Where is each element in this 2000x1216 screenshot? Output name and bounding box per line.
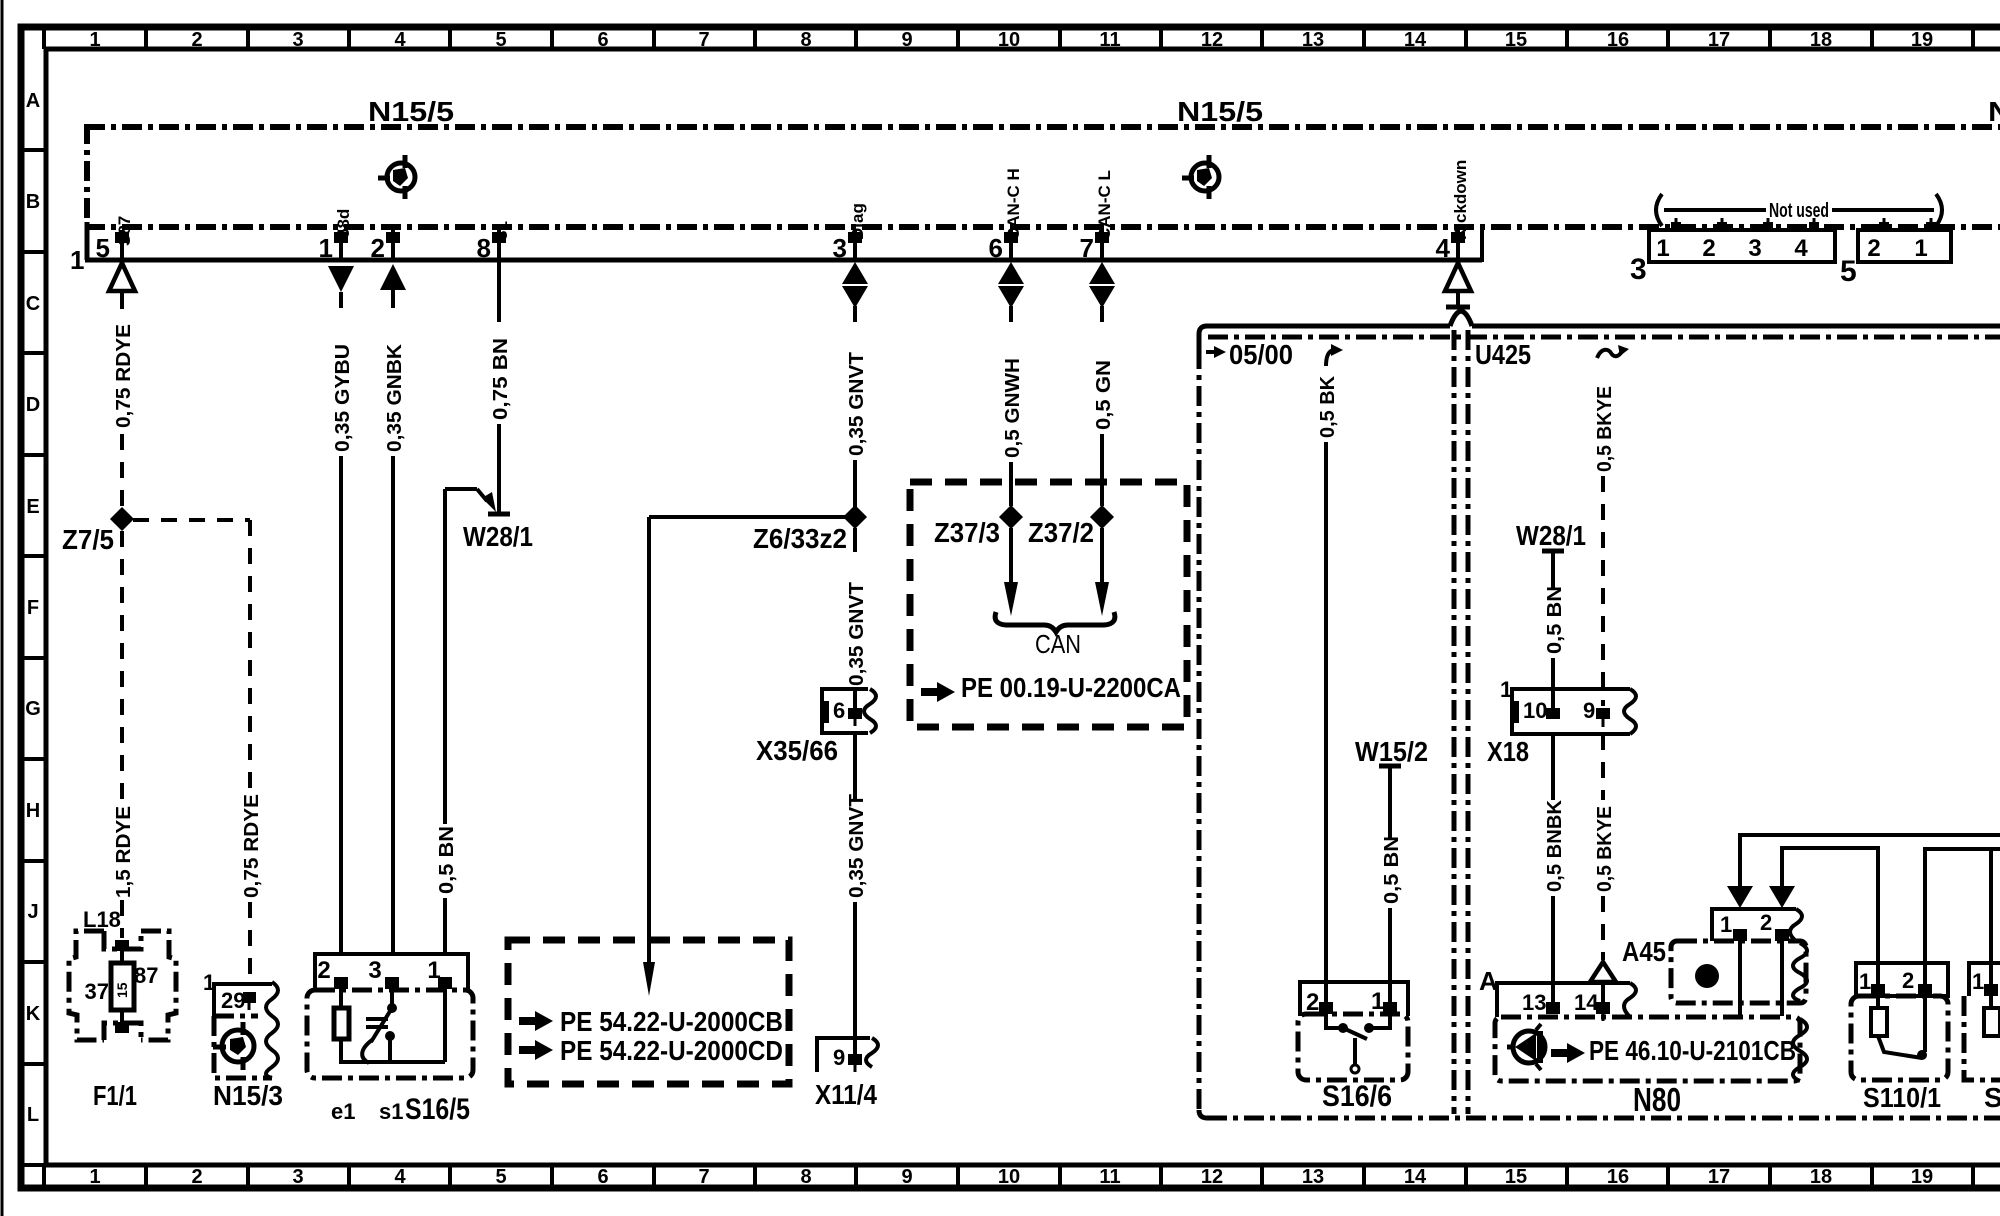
- S16/5 switch s1 pivot dot: [387, 1003, 397, 1013]
- S16/6 pin 1 pad: [1383, 1002, 1397, 1014]
- connector bus right end riser: [1480, 230, 1484, 262]
- X18 pin 9 pad: [1596, 708, 1610, 719]
- N80 connector torn right edge: [1624, 983, 1636, 1017]
- svg-text:6: 6: [833, 698, 845, 723]
- svg-text:PE 54.22-U-2000CB: PE 54.22-U-2000CB: [560, 1006, 783, 1037]
- svg-text:19: 19: [1911, 1166, 1933, 1188]
- wire X35/66 to X11/4: [853, 733, 857, 800]
- pin 3 pad: [848, 232, 862, 243]
- svg-text:Kickdown: Kickdown: [1451, 160, 1470, 240]
- pin 4 plug arrow (hollow): [1445, 263, 1471, 291]
- pin 4 wire stub to end bar: [1456, 291, 1460, 306]
- N15/5 control unit: [70, 96, 2000, 308]
- svg-text:W15/2: W15/2: [1355, 736, 1428, 767]
- X11/4 pin 9 pad: [848, 1054, 862, 1065]
- svg-text:0,5 BK: 0,5 BK: [1317, 375, 1339, 438]
- svg-text:F1/1: F1/1: [93, 1080, 137, 1111]
- S16/6 switch plunger: [1353, 1038, 1357, 1066]
- pin 7 pad: [1095, 232, 1109, 243]
- relay module N15/3 connector box: [214, 984, 272, 1016]
- svg-text:3: 3: [833, 233, 847, 263]
- clock spring A45 box (dash-dot): [1671, 941, 1806, 1003]
- svg-text:1: 1: [1914, 235, 1927, 262]
- S110/1 pin 2 pad: [1918, 984, 1932, 996]
- column numbers bottom: [89, 1166, 1933, 1188]
- svg-text:4: 4: [394, 1166, 406, 1188]
- svg-text:12: 12: [1201, 29, 1223, 51]
- N80 pin 14 pad: [1596, 1002, 1610, 1014]
- column ticks bottom: [44, 1165, 1973, 1188]
- N80 torn right edge: [1793, 1019, 1807, 1081]
- pin 8 stub: [497, 230, 501, 260]
- svg-text:17: 17: [1708, 29, 1730, 51]
- svg-text:W28/1: W28/1: [463, 521, 533, 552]
- PE note hand icon 2: [519, 1040, 553, 1060]
- svg-text:Z37/3: Z37/3: [934, 517, 1000, 548]
- diode arrow into pin 2: [1769, 886, 1795, 908]
- svg-text:0,5 BNBK: 0,5 BNBK: [1544, 799, 1566, 892]
- svg-text:D: D: [26, 394, 40, 416]
- svg-text:PE 46.10-U-2101CB: PE 46.10-U-2101CB: [1589, 1035, 1796, 1066]
- pin 2 stub: [391, 230, 395, 260]
- fuse holder F1/1 outline right (dash-dot): [141, 931, 176, 1040]
- N80 box (dash-dot): [1495, 1017, 1800, 1081]
- svg-text:H: H: [26, 800, 40, 822]
- S110/1 resistor: [1871, 1008, 1887, 1036]
- wire pin1 to S16/5 pin2: [339, 292, 343, 308]
- svg-text:Not used: Not used: [1769, 200, 1829, 222]
- svg-text:Z37/2: Z37/2: [1028, 517, 1094, 548]
- U425 area: [1199, 311, 2000, 1118]
- svg-text:9: 9: [1583, 698, 1595, 723]
- separator double line left (dash-dot): [1452, 330, 1457, 1114]
- svg-text:1: 1: [89, 1166, 100, 1188]
- svg-text:S16/5: S16/5: [405, 1093, 470, 1126]
- svg-text:S87: S87: [115, 216, 134, 246]
- A45 connector torn right edge: [1790, 909, 1802, 941]
- wire Z6/33z2 down to X35/66: [853, 528, 857, 552]
- svg-text:4: 4: [394, 29, 406, 51]
- component area top boundary (solid with crossing hump): [1199, 326, 1450, 349]
- svg-text:10: 10: [998, 1166, 1020, 1188]
- svg-text:16: 16: [1607, 1166, 1629, 1188]
- S16/6 inner box (dash-dot): [1298, 1014, 1408, 1080]
- pin 6 stub: [1009, 230, 1013, 260]
- N15/3 solenoid symbol: [213, 1022, 254, 1070]
- svg-text:4: 4: [1436, 233, 1451, 263]
- bottom right: [1479, 345, 2000, 1118]
- pin 3 arrow both ways (filled): [842, 262, 868, 284]
- ground point W15/2 bar: [1379, 764, 1401, 769]
- svg-text:S11: S11: [1984, 1082, 2000, 1113]
- S16/5 pin 1 pad: [438, 977, 452, 989]
- svg-text:Z6/33z2: Z6/33z2: [753, 523, 847, 554]
- svg-text:15: 15: [114, 982, 130, 998]
- svg-text:1,5 RDYE: 1,5 RDYE: [113, 806, 135, 898]
- svg-text:15: 15: [1505, 1166, 1527, 1188]
- pin 4 stub: [1456, 230, 1460, 260]
- switch S16/5 connector box: [315, 954, 468, 992]
- wire pin1 through A45 down to N80: [1738, 941, 1742, 1016]
- wire Z7/5 branch right (dashed): [133, 518, 250, 522]
- S16/5 bottom rail: [341, 1060, 445, 1064]
- pin 2 pad: [386, 232, 400, 243]
- svg-text:0,5 GNWH: 0,5 GNWH: [1002, 358, 1024, 458]
- connector X11/4 bracket: [817, 1038, 870, 1072]
- X35/66 pin 6 pad: [848, 708, 862, 719]
- connector box 5 pin stubs: [1884, 218, 1931, 230]
- svg-text:Z7/5: Z7/5: [62, 524, 114, 555]
- svg-text:9: 9: [901, 29, 912, 51]
- svg-text:X35/66: X35/66: [756, 735, 838, 766]
- S110/1 switch blade: [1878, 1036, 1922, 1058]
- N80 hand icon: [1551, 1043, 1585, 1063]
- svg-text:1: 1: [1500, 677, 1512, 702]
- wire branch down to PE note: [647, 517, 651, 962]
- pin 7 arrow both ways (filled): [1089, 262, 1115, 284]
- column ticks top: [44, 27, 1973, 49]
- svg-text:N15/5: N15/5: [1177, 96, 1263, 127]
- S16/6 pin 2 pad: [1319, 1002, 1333, 1014]
- connector bus line: [85, 258, 1482, 263]
- svg-text:1: 1: [89, 29, 100, 51]
- svg-text:1: 1: [1656, 235, 1669, 262]
- PE note box (dashed): [508, 940, 789, 1084]
- pin 2 arrow up (filled): [380, 264, 406, 290]
- wire W28/1 down to X18 pin10: [1551, 551, 1555, 590]
- connector box 3 pin stubs: [1676, 218, 1814, 230]
- svg-text:N15/5: N15/5: [368, 96, 454, 127]
- svg-text:1: 1: [1859, 969, 1871, 994]
- wire pin3 Diag down: [853, 306, 857, 322]
- wire S16/5 pin1 to W28/1: [443, 489, 447, 824]
- svg-text:2: 2: [1760, 910, 1772, 935]
- svg-text:37: 37: [85, 979, 109, 1004]
- wire pin5 to Z7/5 (dashed, 0,75 RDYE): [120, 293, 124, 316]
- connector bus riser left: [85, 222, 90, 260]
- wire W28/1 diagonal arrow: [477, 489, 487, 501]
- svg-text:0,5 BN: 0,5 BN: [1381, 836, 1403, 904]
- fuse holder F1/1 outline left (dash-dot): [69, 931, 104, 1040]
- svg-text:15: 15: [1505, 29, 1527, 51]
- svg-text:W28/1: W28/1: [1516, 520, 1586, 551]
- svg-text:E: E: [26, 496, 39, 518]
- switch S110/1 connector box: [1856, 963, 1948, 996]
- X35/66 left slot: [822, 701, 829, 723]
- svg-text:1: 1: [1720, 912, 1732, 937]
- wire continues into N15/3: [248, 902, 252, 984]
- left column: [62, 293, 473, 1126]
- svg-text:0,75 BN: 0,75 BN: [490, 338, 512, 420]
- svg-text:X11/4: X11/4: [815, 1079, 877, 1110]
- pin 6 pad: [1004, 232, 1018, 243]
- A45 contact dot: [1695, 964, 1719, 988]
- svg-text:PE 54.22-U-2000CD: PE 54.22-U-2000CD: [560, 1035, 783, 1066]
- left page edge line: [1, 0, 4, 1216]
- svg-text:3: 3: [368, 957, 381, 984]
- wire W1 drop to right switch: [1989, 849, 1993, 985]
- svg-text:87: 87: [134, 963, 158, 988]
- node Z6/33z2 diamond: [843, 505, 867, 529]
- CAN brace: [995, 612, 1115, 632]
- svg-text:8: 8: [477, 233, 491, 263]
- svg-text:1: 1: [1972, 969, 1984, 994]
- fuse F1/1 element: [111, 963, 134, 1010]
- screw symbol middle: [1182, 155, 1219, 199]
- row letters: [25, 90, 41, 1126]
- svg-text:3: 3: [292, 1166, 303, 1188]
- A45 pin 1 pad: [1733, 929, 1747, 941]
- wire W2 to S110/1 pin1: [1782, 848, 1878, 985]
- pin 5 stub: [120, 230, 124, 260]
- Not used bracket left paren: [1656, 194, 1662, 226]
- X18 torn right edge: [1624, 689, 1636, 734]
- svg-text:0,5 BKYE: 0,5 BKYE: [1594, 806, 1616, 892]
- svg-text:0,5 BKYE: 0,5 BKYE: [1594, 386, 1616, 472]
- N80 pin 13 pad: [1546, 1002, 1560, 1014]
- svg-text:PE 00.19-U-2200CA: PE 00.19-U-2200CA: [961, 672, 1181, 703]
- svg-text:7: 7: [1080, 233, 1094, 263]
- fuse F1/1 bottom pad: [115, 1022, 129, 1033]
- pin 1 pad: [334, 232, 348, 243]
- svg-text:11: 11: [1099, 29, 1120, 51]
- middle column: [332, 260, 878, 1110]
- svg-text:L18: L18: [83, 907, 121, 932]
- N80 pin14 plug arrow (hollow): [1590, 962, 1616, 982]
- svg-text:31: 31: [492, 221, 511, 240]
- svg-text:A45: A45: [1622, 936, 1666, 967]
- fuse holder F1/1 inner shelf top (dash-dot): [104, 931, 141, 949]
- svg-text:K: K: [26, 1003, 41, 1025]
- wire W1 top: [1740, 835, 2000, 886]
- pin 3 stub: [853, 230, 857, 260]
- svg-text:3: 3: [1748, 235, 1761, 262]
- svg-text:18: 18: [1810, 29, 1832, 51]
- svg-text:2: 2: [191, 1166, 202, 1188]
- svg-text:1: 1: [70, 245, 84, 275]
- S110/2 box (dash-dot, cut): [1964, 996, 2000, 1080]
- svg-text:Diag: Diag: [848, 203, 867, 240]
- S16/5 switch s1 wire: [390, 989, 394, 1006]
- svg-text:13: 13: [1522, 990, 1546, 1015]
- svg-text:G: G: [25, 698, 41, 720]
- wire 0,5 BK continuation arrow: [1326, 350, 1334, 366]
- pin 8 pad: [492, 232, 506, 243]
- wire X18 pin9 to N80 pin14 (0,5 BKYE dashed): [1601, 734, 1605, 800]
- wire branch down to N15/3 (dashed): [248, 520, 252, 796]
- pin 5 plug arrow (hollow): [109, 263, 135, 291]
- pin 1 stub: [339, 230, 343, 260]
- ground point W28/1 bar: [488, 512, 510, 517]
- pin 7 stub: [1100, 230, 1104, 260]
- svg-text:S110/1: S110/1: [1863, 1082, 1941, 1113]
- svg-text:05/00: 05/00: [1229, 339, 1293, 370]
- A45 pin 2 pad: [1775, 929, 1789, 941]
- wire W3 from S110/1 pin2: [1925, 849, 2000, 985]
- svg-text:14: 14: [1404, 29, 1427, 51]
- A45 connector box pins 1,2: [1712, 909, 1796, 941]
- fuse holder F1/1 inner shelf bottom (dash-dot): [104, 1023, 141, 1040]
- svg-text:A: A: [26, 90, 40, 112]
- svg-text:8: 8: [800, 1166, 811, 1188]
- wire 0,5 BKYE dashed to X18 pin9: [1601, 476, 1605, 706]
- svg-text:2: 2: [1867, 235, 1880, 262]
- svg-text:C: C: [26, 293, 40, 315]
- connector box 3 (not used pins 1-4): [1649, 230, 1835, 262]
- S110/1 wires: [1876, 996, 1880, 1008]
- connector X35/66 box: [822, 689, 868, 733]
- control unit N15/5 left edge (dash-dot): [84, 124, 90, 224]
- X18 pin 10 pad: [1546, 708, 1560, 719]
- fuse F1/1 top pad: [115, 940, 129, 951]
- N15/3 pin 29 pad: [243, 992, 256, 1003]
- svg-text:6: 6: [989, 233, 1003, 263]
- X18 left slot: [1512, 701, 1519, 723]
- N15/3 lower box (dash-dot): [214, 1016, 272, 1078]
- connector box 5 (not used pins 2,1): [1858, 230, 1951, 262]
- A45 torn right edge: [1793, 943, 1807, 1001]
- svg-text:8: 8: [800, 29, 811, 51]
- S16/5 switch s1 actuator curve: [362, 1040, 372, 1063]
- separator double line right (dash-dot): [1466, 330, 1471, 1114]
- ground point W28/1 (2) bar: [1542, 549, 1564, 554]
- svg-text:7: 7: [698, 1166, 709, 1188]
- S110/1 pin 1 pad: [1871, 984, 1885, 996]
- S16/5 switch s1 contact bars: [366, 1017, 388, 1021]
- svg-text:U425: U425: [1475, 339, 1531, 370]
- svg-text:4: 4: [1794, 235, 1808, 262]
- svg-text:14: 14: [1404, 1166, 1427, 1188]
- svg-text:CAN: CAN: [1035, 629, 1081, 659]
- svg-text:5: 5: [1840, 255, 1857, 288]
- N80 horn symbol: [1507, 1024, 1545, 1070]
- svg-text:S16/6: S16/6: [1322, 1080, 1392, 1113]
- svg-text:2: 2: [1702, 235, 1715, 262]
- node Z7/5 diamond: [110, 507, 134, 531]
- svg-text:10: 10: [1523, 698, 1547, 723]
- control unit N15/5 top boundary (dash-dot): [85, 124, 2000, 130]
- S16/5 lamp e1: [334, 1008, 349, 1039]
- S16/5 switch s1 lower contact: [385, 1031, 395, 1041]
- S16/5 lamp bottom wire: [339, 1039, 343, 1064]
- svg-text:0,75 RDYE: 0,75 RDYE: [113, 324, 135, 428]
- arrow into PE note box: [643, 962, 655, 996]
- svg-text:58d: 58d: [334, 209, 353, 238]
- svg-text:L: L: [27, 1104, 39, 1126]
- svg-text:B: B: [26, 191, 40, 213]
- svg-text:N15/3: N15/3: [213, 1080, 283, 1111]
- wire X18 pin10 to N80 pin13 (0,5 BNBK): [1551, 734, 1555, 800]
- svg-text:1: 1: [1371, 988, 1384, 1015]
- svg-text:6: 6: [597, 1166, 608, 1188]
- CAN note box (dashed): [910, 482, 1187, 727]
- PE note hand icon 1: [519, 1011, 553, 1031]
- wire pin2 to S16/5 pin3: [391, 290, 395, 308]
- svg-text:14: 14: [1574, 990, 1599, 1015]
- svg-text:2: 2: [317, 957, 330, 984]
- component area bottom boundary (dash-dot): [1207, 1116, 2000, 1121]
- svg-text:0,35 GNVT: 0,35 GNVT: [846, 794, 868, 898]
- svg-text:J: J: [27, 901, 38, 923]
- svg-text:1: 1: [319, 233, 333, 263]
- svg-text:13: 13: [1302, 1166, 1324, 1188]
- pin 5 pad: [115, 232, 129, 243]
- S110/2 pin 1 pad: [1984, 984, 1998, 996]
- svg-text:0,5 BN: 0,5 BN: [1544, 586, 1566, 654]
- svg-text:0,5 BN: 0,5 BN: [436, 826, 458, 894]
- svg-text:1: 1: [427, 957, 440, 984]
- svg-text:18: 18: [1810, 1166, 1832, 1188]
- svg-text:3: 3: [1630, 253, 1647, 286]
- wire Z37/3 down arrow: [1009, 528, 1013, 582]
- S110/2 resistor (cut): [1984, 1008, 2000, 1036]
- wire W15/2 to S16/6 pin1: [1388, 766, 1392, 838]
- svg-text:7: 7: [698, 29, 709, 51]
- svg-text:9: 9: [901, 1166, 912, 1188]
- Not used bracket right paren: [1936, 194, 1942, 226]
- pin 1 arrow down (filled): [328, 266, 354, 292]
- S16/5 pin1 wire down: [443, 989, 447, 1062]
- pin 6 arrow both ways (filled): [998, 262, 1024, 284]
- svg-text:2: 2: [191, 29, 202, 51]
- svg-text:1: 1: [203, 970, 215, 995]
- svg-text:17: 17: [1708, 1166, 1730, 1188]
- svg-text:N15/5: N15/5: [1988, 96, 2000, 127]
- wire Z6/33z2 branch left: [649, 515, 845, 519]
- S16/6 switch wires: [1326, 1014, 1341, 1028]
- control unit N15/5 bottom boundary (dash-dot): [85, 224, 2000, 230]
- CAN box: [910, 306, 1187, 727]
- wire 0,5 BK down to S16/6: [1324, 442, 1328, 1002]
- svg-text:29: 29: [221, 988, 245, 1013]
- S110/1 box (dash-dot): [1851, 996, 1948, 1080]
- wire 0,5 BKYE continuation squiggle: [1597, 350, 1622, 358]
- kickdown switch S16/6 connector box: [1300, 982, 1408, 1016]
- switch S110/2 (cut off at edge) connector box: [1969, 963, 2000, 996]
- svg-text:5: 5: [495, 29, 506, 51]
- svg-text:X18: X18: [1487, 736, 1529, 767]
- S16/5 lamp e1 wire: [339, 989, 343, 1008]
- svg-text:6: 6: [597, 29, 608, 51]
- svg-text:0,35 GYBU: 0,35 GYBU: [332, 344, 354, 452]
- fuse F1/1 wire through: [120, 951, 124, 963]
- pin 4 pad: [1451, 232, 1465, 243]
- svg-text:13: 13: [1302, 29, 1324, 51]
- wire pin7 CAN-C L down: [1100, 306, 1104, 322]
- svg-text:0,5 GN: 0,5 GN: [1093, 360, 1115, 430]
- wire W28/1 horizontal: [445, 487, 477, 491]
- svg-text:3: 3: [292, 29, 303, 51]
- svg-text:0,35 GNVT: 0,35 GNVT: [846, 582, 868, 686]
- svg-text:16: 16: [1607, 29, 1629, 51]
- svg-text:10: 10: [998, 29, 1020, 51]
- svg-text:CAN-C L: CAN-C L: [1095, 170, 1114, 240]
- screw symbol left: [378, 155, 415, 199]
- column numbers top: [89, 29, 1933, 51]
- svg-text:e1: e1: [331, 1099, 355, 1124]
- N15/3 torn right edge: [266, 982, 278, 1078]
- svg-text:19: 19: [1911, 29, 1933, 51]
- S16/5 inner box (dash-dot): [307, 990, 473, 1078]
- svg-text:F: F: [27, 597, 39, 619]
- wire pin2 through A45 down to N80: [1780, 941, 1784, 1016]
- X35/66 torn right edge: [864, 689, 876, 733]
- 05/00 marker arrow: [1206, 350, 1216, 354]
- component area top boundary (dash-dot): [1208, 335, 2000, 340]
- 05/00 box left edge (dash-dot): [1197, 349, 1202, 1110]
- S16/5 switch s1 blade: [371, 1008, 392, 1042]
- svg-text:9: 9: [833, 1045, 845, 1070]
